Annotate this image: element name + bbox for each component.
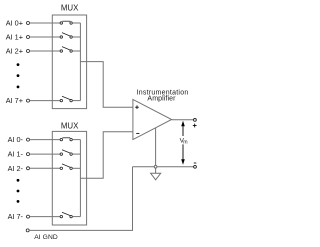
wire SW1+ to bus: [72, 36, 80, 38]
svg-text:AI 2-: AI 2-: [8, 164, 24, 173]
wire AI1- to mux: [29, 153, 60, 155]
svg-text:AI 1-: AI 1-: [8, 150, 24, 159]
wire AI2- to mux: [29, 167, 60, 169]
svg-text:AI 7+: AI 7+: [6, 96, 23, 105]
svg-text:m: m: [183, 139, 187, 145]
U3 + input mark: [135, 105, 139, 109]
bus node (upper mux common bus): [79, 23, 81, 101]
MUX U2 box: [52, 131, 86, 225]
node ground junction: [154, 165, 157, 168]
wire SW0+ to bus: [72, 22, 80, 24]
wire amplifier output: [172, 119, 194, 121]
terminal AI 0+: [6, 19, 30, 28]
terminal AI 1+: [6, 33, 30, 42]
switch SW2- (open): [60, 164, 72, 170]
MUX U1 (upper multiplexer): [52, 3, 86, 108]
wire AI1+ to mux: [29, 36, 60, 38]
wire SW0- to bus: [72, 139, 80, 141]
svg-text:AI GND: AI GND: [34, 234, 58, 241]
terminal AI 7+: [6, 96, 30, 105]
wire AI7- to mux: [29, 216, 60, 218]
wire AI0- to mux: [29, 139, 60, 141]
arrow up: [182, 125, 184, 136]
svg-text:MUX: MUX: [61, 3, 79, 12]
wire AI2+ to mux: [29, 50, 60, 52]
wire AI GND to ground node: [29, 167, 132, 231]
switch SW7- (open): [60, 212, 72, 218]
switch SW7+ (open): [60, 96, 72, 102]
switch SW2+ (open): [60, 47, 72, 53]
svg-text:MUX: MUX: [61, 122, 79, 131]
terminal output +: [193, 119, 197, 128]
svg-text:AI 0+: AI 0+: [6, 19, 23, 28]
svg-text:Amplifier: Amplifier: [147, 96, 176, 103]
svg-text:AI 7-: AI 7-: [8, 212, 24, 221]
wire SW2+ to bus: [72, 50, 80, 52]
wire bottom return: [133, 166, 194, 168]
wire upper mux output to amplifier + input: [80, 62, 132, 108]
ellipsis dots upper: [17, 63, 20, 88]
ground: [151, 168, 161, 180]
terminal AI 0-: [8, 135, 30, 144]
svg-text:AI 0-: AI 0-: [8, 135, 24, 144]
svg-text:AI 1+: AI 1+: [6, 33, 23, 42]
U3 - input mark: [136, 132, 139, 134]
wire SW1- to bus: [72, 153, 80, 155]
terminal AI 7-: [8, 212, 30, 221]
terminal AI 2+: [6, 47, 30, 56]
terminal AI 2-: [8, 164, 30, 173]
switch SW1+ (open): [60, 33, 72, 39]
svg-text:AI 2+: AI 2+: [6, 47, 23, 56]
MUX U2 (lower multiplexer): [52, 122, 86, 225]
terminal AI GND: [26, 229, 58, 241]
wire SW7+ to bus: [72, 100, 80, 102]
Vm measurement arrow: [180, 121, 188, 165]
switch SW0- (closed): [60, 138, 72, 141]
wire SW2- to bus: [72, 167, 80, 169]
bus node (lower mux common bus): [79, 140, 81, 217]
ellipsis dots lower: [17, 179, 20, 203]
wire AI0+ to mux: [29, 22, 60, 24]
arrow down: [182, 144, 184, 159]
terminal AI 1-: [8, 150, 30, 159]
wire U3 reference pin to ground node: [155, 128, 157, 167]
MUX U1 box: [52, 15, 86, 109]
terminal output -: [194, 163, 197, 168]
wire lower mux output to amplifier - input: [80, 132, 132, 178]
wire SW7- to bus: [72, 216, 80, 218]
switch SW0+ (closed): [60, 21, 72, 24]
op-amp U3 (instrumentation amplifier): [133, 90, 189, 140]
wire AI7+ to mux: [29, 100, 60, 102]
switch SW1- (open): [60, 150, 72, 156]
U3 triangle: [133, 99, 172, 139]
